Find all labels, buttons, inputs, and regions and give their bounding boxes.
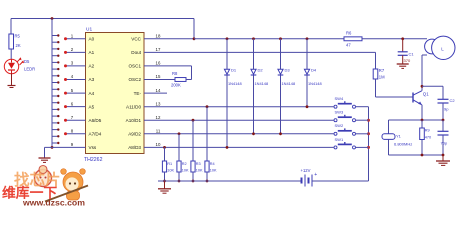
crystal Y1: [388, 120, 390, 134]
wire collector riser: [421, 55, 423, 91]
svg-text:1N4148: 1N4148: [282, 81, 296, 86]
wire pin 7: [66, 119, 86, 121]
svg-text:R1: R1: [167, 162, 172, 166]
svg-text:A3: A3: [89, 77, 95, 82]
wire R7 to base node: [375, 79, 377, 97]
svg-text:+12V: +12V: [301, 168, 311, 173]
wire jumper stub 6: [52, 68, 58, 70]
wire jumper stub 8: [52, 82, 58, 84]
ground (RF): [442, 155, 444, 161]
node bus to Vss wire: [51, 146, 54, 149]
svg-text:2K: 2K: [16, 43, 21, 48]
resistor R8: [175, 78, 186, 82]
svg-text:370: 370: [404, 58, 411, 63]
switch SW3: [334, 119, 337, 122]
wire pin 1: [66, 38, 86, 40]
svg-text:R4: R4: [210, 162, 215, 166]
node VCC/C1 junction: [401, 37, 404, 40]
svg-text:15: 15: [156, 74, 161, 79]
wire C2 tap from collector: [421, 85, 424, 88]
svg-text:17: 17: [156, 47, 161, 52]
wire data row pin13: [144, 106, 334, 108]
wire jumper stub 12: [52, 108, 58, 110]
resistor R1 10K: [163, 146, 166, 149]
svg-text:R6: R6: [346, 31, 352, 36]
svg-text:A7/D4: A7/D4: [89, 132, 102, 137]
node bus/switch junction 1: [367, 119, 370, 122]
svg-text:A4: A4: [89, 91, 95, 96]
wire emitter: [421, 105, 423, 120]
ground (C1): [397, 63, 409, 65]
wire data row pin10: [144, 146, 334, 148]
svg-text:10: 10: [156, 142, 161, 147]
node bus/switch junction 3: [367, 146, 370, 149]
wire jumper stub 4: [52, 55, 58, 57]
node bus/switch junction 2: [367, 132, 370, 135]
op IC U1 TH2262 body: [86, 33, 145, 154]
resistor R9: [421, 120, 423, 128]
switch SW2: [334, 132, 337, 135]
diode D2 1N4148: [253, 39, 255, 134]
resistor R2 10K: [178, 132, 181, 135]
diode D1 1N4148: [226, 39, 228, 148]
resistor R7: [373, 69, 378, 79]
svg-text:A9/D2: A9/D2: [128, 132, 141, 137]
svg-text:D4: D4: [311, 67, 317, 72]
svg-text:Dout: Dout: [131, 50, 141, 55]
antenna coil L: [425, 39, 440, 54]
svg-text:TE-: TE-: [134, 91, 142, 96]
resistor R6: [344, 37, 362, 41]
node VCC/diode D3 junction: [279, 37, 282, 40]
svg-text:13: 13: [156, 101, 161, 106]
svg-text:R2: R2: [182, 162, 187, 166]
wire jumper stub 13: [52, 115, 58, 117]
wire Dout pin17: [144, 51, 376, 53]
wire jumper stub 17: [52, 142, 58, 144]
resistor R3 10K: [192, 119, 195, 122]
svg-text:R5: R5: [15, 34, 21, 39]
capacitor C2: [442, 86, 444, 99]
svg-text:www.dzsc.com: www.dzsc.com: [22, 198, 85, 208]
wire pin 8: [66, 133, 86, 135]
wire jumper stub 14: [52, 122, 58, 124]
resistor R5: [9, 34, 14, 49]
svg-text:R8: R8: [172, 71, 178, 76]
svg-text:D2: D2: [258, 67, 264, 72]
svg-text:A0: A0: [89, 37, 95, 42]
svg-text:D3: D3: [285, 67, 291, 72]
svg-text:70p: 70p: [441, 141, 448, 146]
svg-text:10K: 10K: [167, 169, 174, 173]
diode D3 1N4148: [280, 39, 282, 134]
wire LED cathode: [11, 74, 13, 86]
wire ground rail: [158, 180, 302, 182]
svg-text:1N4148: 1N4148: [255, 81, 269, 86]
capacitor C3 70p: [442, 120, 444, 131]
wire data row pin12: [144, 119, 334, 121]
ground (Vss): [39, 157, 51, 159]
wire VCC pin18 to rail riser: [144, 38, 194, 40]
wire pin 5: [66, 92, 86, 94]
wire jumper stub 2: [52, 41, 58, 43]
svg-text:SW1: SW1: [335, 137, 344, 142]
node VCC/diode D4 junction: [306, 37, 309, 40]
wire address jumper bus: [51, 19, 53, 148]
ground (LED branch): [8, 85, 16, 87]
svg-text:VCC: VCC: [131, 37, 141, 42]
svg-text:14: 14: [156, 88, 161, 93]
svg-text:6.800MHz: 6.800MHz: [394, 142, 412, 147]
wire jumper stub 16: [52, 135, 58, 137]
svg-text:18: 18: [156, 34, 161, 39]
node VCC riser junction: [193, 37, 196, 40]
wire pin 2: [66, 51, 86, 53]
svg-text:Q1: Q1: [423, 92, 429, 97]
svg-text:OSC2: OSC2: [128, 77, 141, 82]
svg-text:A5: A5: [89, 104, 95, 109]
node bus/top-rail junction: [51, 17, 54, 20]
battery +12V: [301, 178, 303, 184]
wire R5 to LED: [10, 49, 12, 60]
wire jumper stub 10: [52, 95, 58, 97]
svg-text:16: 16: [156, 61, 161, 66]
svg-text:R3: R3: [196, 162, 201, 166]
wire R6 to antenna: [362, 38, 427, 40]
wire battery to switch bus: [312, 180, 369, 182]
wire pin 6: [66, 106, 86, 108]
svg-text:C1: C1: [409, 52, 415, 57]
wire emitter node row: [389, 119, 444, 121]
svg-text:D5: D5: [24, 59, 30, 64]
svg-text:D1: D1: [231, 67, 237, 72]
svg-text:SW2: SW2: [335, 123, 344, 128]
capacitor C1: [402, 39, 404, 52]
svg-text:10K: 10K: [196, 169, 203, 173]
svg-text:OSC1: OSC1: [128, 64, 141, 69]
wire top rail: [11, 18, 194, 20]
wire jumper stub 11: [52, 102, 58, 104]
svg-text:C2: C2: [450, 98, 456, 103]
svg-text:SW4: SW4: [335, 96, 344, 101]
wire jumper stub 5: [52, 61, 58, 63]
svg-text:LEDR: LEDR: [24, 67, 35, 72]
switch SW4: [334, 105, 337, 108]
diode D4 1N4148: [306, 39, 308, 107]
wire jumper stub 15: [52, 129, 58, 131]
svg-text:A2: A2: [89, 64, 95, 69]
svg-text:TH2262: TH2262: [84, 157, 103, 163]
wire OSC2 pin15: [144, 79, 175, 81]
wire pin 3: [66, 65, 86, 67]
wire TE pin14 stub: [144, 92, 167, 94]
svg-text:1M: 1M: [379, 75, 385, 80]
wire jumper stub 9: [52, 88, 58, 90]
wire pin 4: [66, 79, 86, 81]
svg-text:A11/D0: A11/D0: [126, 104, 141, 109]
svg-text:470: 470: [425, 136, 431, 140]
svg-text:R9: R9: [425, 129, 430, 133]
svg-text:200K: 200K: [171, 83, 181, 88]
node VCC/diode D2 junction: [252, 37, 255, 40]
svg-text:SW3: SW3: [335, 110, 344, 115]
switch SW1: [334, 146, 337, 149]
svg-text:12: 12: [156, 115, 161, 120]
wire data row pin11: [144, 133, 334, 135]
svg-text:A10/D1: A10/D1: [126, 118, 142, 123]
wire OSC1 pin16: [144, 65, 192, 67]
resistor R4 10K: [206, 105, 209, 108]
svg-text:9p: 9p: [444, 107, 449, 112]
wire switch bus: [368, 107, 370, 181]
watermark dzsc logo: [2, 166, 88, 208]
svg-text:Y1: Y1: [396, 134, 402, 139]
svg-text:Vss: Vss: [89, 145, 97, 150]
wire bottom RF rail: [389, 154, 444, 156]
svg-text:U1: U1: [86, 27, 92, 33]
wire jumper stub 7: [52, 75, 58, 77]
svg-text:1N4148: 1N4148: [308, 81, 322, 86]
svg-text:R7: R7: [379, 68, 385, 73]
wire jumper stub 1: [52, 35, 58, 37]
transistor Q1: [412, 93, 414, 103]
svg-text:A6/D5: A6/D5: [89, 118, 102, 123]
svg-text:A1: A1: [89, 50, 95, 55]
svg-text:47: 47: [346, 43, 351, 48]
svg-text:+: +: [314, 172, 317, 178]
svg-text:10K: 10K: [182, 169, 189, 173]
svg-text:11: 11: [156, 129, 161, 134]
node VCC/diode D1 junction: [226, 37, 229, 40]
LED D5: [4, 59, 18, 73]
wire jumper stub 3: [52, 48, 58, 50]
ground (rail): [164, 181, 166, 189]
svg-text:A8/D3: A8/D3: [128, 145, 141, 150]
svg-text:10K: 10K: [210, 169, 217, 173]
svg-text:1N4148: 1N4148: [228, 81, 242, 86]
wire left branch upper: [10, 19, 12, 35]
wire pin 9 Vss: [45, 146, 86, 148]
wire VCC distribution: [194, 38, 344, 40]
